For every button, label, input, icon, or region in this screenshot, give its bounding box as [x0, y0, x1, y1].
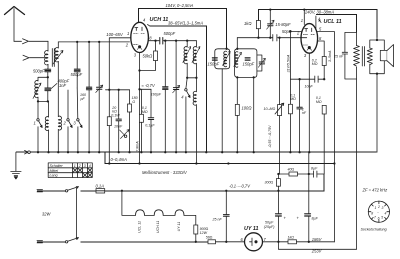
- cathode RC jumper: [290, 78, 324, 80]
- resistor 0,1M cathode bias: [322, 105, 326, 114]
- heater UCL11: [136, 210, 145, 216]
- antenna: [5, 7, 25, 42]
- svg-text:8µF: 8µF: [312, 217, 319, 221]
- svg-text:500pF: 500pF: [164, 31, 176, 36]
- svg-text:1: 1: [301, 18, 303, 23]
- resistor 20k 0,1W screen divider: [107, 117, 111, 126]
- resistor 1k IF feed: [256, 21, 260, 29]
- svg-text:Schalter: Schalter: [50, 164, 64, 168]
- wire antenna lead-in: [14, 40, 48, 42]
- svg-text:25 nF: 25 nF: [333, 55, 344, 59]
- svg-text:500pF: 500pF: [71, 72, 83, 77]
- svg-text:MΩ: MΩ: [142, 110, 148, 114]
- resistor 100 ohm: [235, 104, 239, 115]
- AVC row wire: [106, 89, 130, 91]
- B+ wire from rectifier: [263, 241, 289, 243]
- capacitor 1nF: [297, 79, 302, 152]
- svg-text:8: 8: [371, 211, 373, 215]
- band switch table: [48, 163, 92, 178]
- coil L3 (long wave) with arrow: [33, 81, 41, 102]
- wire UCL grid pin2: [290, 31, 301, 33]
- svg-text:pF: pF: [80, 97, 86, 101]
- svg-text:Lang: Lang: [50, 174, 58, 178]
- svg-text:500pF: 500pF: [33, 68, 45, 73]
- coil L osc band: [193, 78, 196, 164]
- pin1 wire to 104V rail: [303, 10, 305, 25]
- svg-text:4: 4: [385, 211, 387, 215]
- switch contact 1: [37, 119, 42, 153]
- node: band cap drop: [88, 41, 90, 43]
- pin8 oscillator wire: [148, 40, 159, 42]
- wire antenna tap lead: [30, 57, 45, 59]
- svg-text:4: 4: [89, 164, 91, 168]
- rectifier tube UY11: [245, 233, 263, 251]
- svg-text:12W: 12W: [200, 231, 208, 235]
- measurement bus 0-0,4mA: [105, 152, 335, 163]
- switch contact 2: [67, 90, 72, 152]
- svg-text:UY 11: UY 11: [177, 222, 181, 232]
- wire to wave coil branch: [38, 77, 48, 81]
- bus junction dots: [37, 151, 311, 153]
- antenna tap plug connector: [23, 55, 29, 60]
- socket diagram: [368, 201, 389, 222]
- svg-text:2: 2: [78, 164, 81, 168]
- trimmer capacitor 15-80pF: [267, 10, 275, 38]
- svg-text:6: 6: [378, 217, 380, 221]
- pin5 screen wire: [317, 32, 334, 243]
- svg-text:Ω: Ω: [132, 100, 135, 104]
- svg-text:253V: 253V: [311, 248, 323, 253]
- antenna coil L1 primary: [45, 41, 48, 68]
- pin3 cathode wire: [308, 53, 310, 152]
- wire IF2 bottom: [236, 77, 238, 104]
- svg-text:≈ -0,7V: ≈ -0,7V: [142, 83, 156, 88]
- svg-text:MΩ: MΩ: [312, 62, 318, 66]
- svg-text:10nF: 10nF: [305, 85, 314, 89]
- svg-text:UY 11: UY 11: [244, 226, 258, 232]
- oscillator coil Losc1 with arrow: [183, 41, 191, 78]
- wire chassis to backbias junction: [308, 152, 310, 174]
- IF transformer 1 primary loop: [215, 49, 230, 69]
- wire down to band switch 1: [37, 101, 39, 118]
- electrolytic 8uF: [305, 174, 311, 242]
- switch contact 3: [77, 119, 82, 153]
- IF2 coil with arrow: [234, 52, 242, 68]
- resistor 0,2M: [322, 57, 326, 66]
- svg-text:0–0,4mA: 0–0,4mA: [111, 157, 128, 162]
- antenna plug connector: [23, 39, 29, 44]
- svg-text:50µF: 50µF: [265, 220, 274, 224]
- pin3 cathode wire: [139, 53, 141, 164]
- wire IF2 right side down: [253, 77, 255, 152]
- capacitor 150pF IF2: [245, 58, 250, 61]
- chassis connector: [25, 150, 31, 154]
- pin8 wire: [317, 41, 324, 57]
- svg-text:100Ω: 100Ω: [242, 106, 252, 111]
- svg-text:-0,55⋯-0,75V: -0,55⋯-0,75V: [268, 125, 272, 148]
- svg-text:··: ··: [377, 211, 379, 215]
- mains switch top: [65, 187, 78, 193]
- svg-text:32W: 32W: [42, 212, 52, 217]
- mains switch bottom: [65, 238, 78, 244]
- svg-text:150pF: 150pF: [208, 62, 220, 67]
- wire IF2 secondary top to grid line: [236, 38, 238, 49]
- resistor 0,1M cathode: [140, 88, 152, 90]
- output transformer primary branch: [345, 32, 357, 52]
- capacitor 160pF band padder: [86, 42, 91, 152]
- svg-text:3–5mA: 3–5mA: [328, 50, 332, 62]
- 253V line: [278, 242, 356, 250]
- svg-text:1kΩ: 1kΩ: [288, 236, 295, 240]
- svg-text:↖ UCL 11: ↖ UCL 11: [318, 19, 342, 25]
- svg-text:1kΩ: 1kΩ: [244, 21, 251, 26]
- svg-text:ZF = 472 kHz: ZF = 472 kHz: [362, 188, 388, 193]
- svg-text:10nF: 10nF: [114, 124, 123, 128]
- ground: [11, 152, 21, 179]
- pin1 wire (100-65V): [109, 38, 131, 117]
- IF2 trimmer branch: [257, 55, 266, 71]
- svg-text:5: 5: [381, 216, 383, 220]
- resistor 50k: [154, 51, 158, 61]
- tube UCH11: [131, 22, 149, 52]
- wire speaker loop to chassis: [376, 38, 378, 153]
- capacitor 160pF padder: [163, 41, 168, 153]
- wire cap to switch3: [76, 88, 79, 119]
- svg-text:150pF: 150pF: [243, 62, 255, 67]
- resistor 56 ohm: [208, 240, 216, 244]
- svg-text:0,1A: 0,1A: [96, 184, 105, 189]
- wire IF1 bottom to bus: [221, 69, 223, 152]
- capacitor 500pF (antenna series): [45, 69, 51, 78]
- coil L4 band coil: [45, 101, 48, 152]
- resistor 1k filter: [288, 240, 297, 244]
- capacitor 500pF (series band): [74, 42, 80, 88]
- node 50k top: [154, 40, 156, 42]
- capacitor 400pF/1nF: [45, 77, 51, 101]
- svg-text:8µF: 8µF: [311, 167, 318, 171]
- backbias network: 300 ohm: [277, 174, 279, 179]
- capacitor 0,1uF cathode: [148, 89, 153, 152]
- capacitor 8uF backbias: [314, 171, 317, 177]
- oscillator coil Losc2 with arrow: [192, 41, 200, 78]
- svg-text:1: 1: [34, 121, 36, 126]
- svg-text:50kΩ: 50kΩ: [143, 53, 153, 58]
- coil L5 band coil: [58, 116, 61, 152]
- svg-text:40Ω: 40Ω: [288, 168, 295, 172]
- svg-text:3: 3: [84, 164, 86, 168]
- svg-text:UCL 11: UCL 11: [137, 221, 141, 233]
- switch contact 4: [185, 78, 190, 152]
- rail 38-65V screen line: [148, 25, 150, 26]
- svg-text:-0,1⋯-0,7V: -0,1⋯-0,7V: [229, 183, 251, 188]
- tube UCL11: [301, 24, 318, 54]
- svg-text:10–MΩ: 10–MΩ: [264, 107, 276, 111]
- switch link: [76, 188, 78, 239]
- svg-text:25 nF: 25 nF: [212, 218, 223, 222]
- svg-text:Mittel: Mittel: [50, 169, 59, 173]
- capacitor 10nF cathode: [315, 76, 318, 82]
- backbias network: 40 ohm + 8uF: [278, 173, 289, 175]
- main chassis bus: [16, 151, 376, 153]
- svg-text:UCH 11: UCH 11: [156, 221, 160, 234]
- trimmer capacitor padder: [173, 41, 180, 153]
- svg-text:31V/5,5mA: 31V/5,5mA: [287, 54, 291, 72]
- wire osc coils common: [187, 77, 196, 79]
- heater chain wire: [121, 190, 123, 192]
- fuse 0,1A: [96, 189, 105, 193]
- svg-text:1nF: 1nF: [59, 83, 67, 88]
- svg-text:104V, 0–2,5mA: 104V, 0–2,5mA: [166, 3, 194, 8]
- IF1 coil with arrow: [223, 51, 231, 66]
- svg-text:MΩ: MΩ: [290, 97, 296, 101]
- heater UCH11: [154, 210, 163, 216]
- svg-text:160pF: 160pF: [151, 92, 162, 96]
- svg-text:15-80pF: 15-80pF: [275, 22, 291, 27]
- heater UY11: [175, 210, 184, 216]
- svg-text:38–65V/1,3–1,5mA: 38–65V/1,3–1,5mA: [168, 21, 203, 26]
- svg-text:(25µF): (25µF): [264, 225, 275, 229]
- node padder trimmer: [175, 40, 177, 42]
- IF transformer 2 loop: [235, 49, 257, 78]
- capacitor 500pF oscillator grid: [160, 38, 197, 45]
- svg-text:MΩ: MΩ: [316, 100, 322, 104]
- capacitor 150pF IF1: [212, 58, 217, 61]
- speaker: [377, 40, 394, 74]
- output transformer secondary: [367, 40, 377, 74]
- resistor 0,1M (grid leak): [289, 32, 291, 105]
- output transformer primary winding: [354, 32, 360, 249]
- svg-text:Meßinstrument · 333Ω/V: Meßinstrument · 333Ω/V: [142, 170, 188, 175]
- tuning coil L2 secondary: [53, 42, 63, 117]
- rail 104V anode line: [138, 9, 226, 49]
- capacitor 10nF: [116, 90, 121, 152]
- transformer core: [362, 47, 364, 67]
- mains line top: [37, 174, 324, 191]
- svg-text:300Ω: 300Ω: [265, 181, 274, 185]
- potentiometer wiper arrow: [120, 130, 130, 139]
- rail 240V 30-38mA: [315, 16, 317, 29]
- node: trimmer drop: [98, 41, 100, 43]
- node bottom of antenna section: [38, 100, 48, 102]
- svg-text:UCH 11: UCH 11: [150, 17, 169, 23]
- resistor 900 ohm 12W: [194, 225, 198, 234]
- svg-text:1: 1: [127, 31, 129, 36]
- node: 500pF drop: [76, 41, 78, 43]
- svg-text:240V, 30–38mA: 240V, 30–38mA: [304, 9, 334, 14]
- svg-text:56Ω: 56Ω: [206, 236, 213, 240]
- node osc coil 1: [186, 40, 188, 42]
- resistor 180 ohm: [129, 90, 131, 104]
- svg-text:0,1µF: 0,1µF: [145, 124, 155, 128]
- trimmer capacitor (antenna circuit): [96, 42, 103, 152]
- svg-text:3: 3: [382, 206, 384, 210]
- volume potentiometer 10M: [279, 38, 281, 105]
- svg-text:7,8mA: 7,8mA: [136, 141, 140, 152]
- svg-text:2: 2: [377, 205, 380, 209]
- svg-text:Sockelschaltung: Sockelschaltung: [361, 228, 387, 232]
- rail 104V right segment: [258, 10, 377, 38]
- svg-text:1: 1: [375, 206, 377, 210]
- capacitor 50pF: [273, 35, 277, 42]
- detector grid line: [237, 37, 306, 39]
- capacitor 25nF tone: [342, 52, 347, 54]
- svg-text:100–65V: 100–65V: [106, 32, 124, 37]
- coupling core: [52, 49, 54, 67]
- node padder fixed: [164, 40, 166, 42]
- svg-text:1: 1: [74, 164, 76, 168]
- capacitor 25nF mains: [223, 191, 229, 242]
- svg-text:7: 7: [374, 216, 376, 220]
- grid wire of UCH11 (tuned circuit bus): [58, 41, 129, 43]
- wire 50k to cathode: [140, 61, 156, 71]
- mains line bottom: [37, 241, 208, 243]
- svg-text:186V: 186V: [312, 237, 323, 242]
- electrolytic 50uF: [276, 191, 282, 242]
